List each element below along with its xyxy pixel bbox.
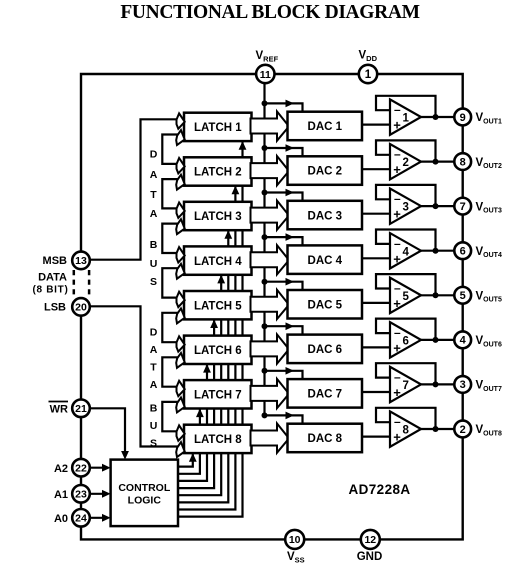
svg-text:7: 7 xyxy=(460,201,466,213)
arrowhead VREF feed DAC 8 xyxy=(286,412,295,420)
junction dot VREF rail row 2 xyxy=(262,145,268,151)
block CONTROL LOGIC U-control xyxy=(111,460,178,526)
wire feedback loop op-amp 7 xyxy=(376,363,436,384)
wire VREF feed to DAC 7 xyxy=(265,371,303,379)
svg-text:+: + xyxy=(393,340,401,355)
dac DAC 7 xyxy=(288,379,363,408)
wire WR pin 21 to CONTROL LOGIC xyxy=(81,408,125,452)
svg-text:–: – xyxy=(394,370,401,384)
arrowhead VREF feed DAC 4 xyxy=(286,233,295,241)
svg-text:4: 4 xyxy=(403,246,410,258)
wire DAC 4 output to op-amp 4 non-inverting input xyxy=(362,257,390,259)
wire op-amp 2 output to pin xyxy=(419,161,463,163)
wire data bus bracket LATCH 6 to LATCH 7 xyxy=(162,357,178,386)
bus arrow into LATCH 2 top xyxy=(177,158,185,173)
pin 8 VOUT2 xyxy=(454,153,471,170)
svg-text:A1: A1 xyxy=(54,489,68,501)
wire data bus bracket LATCH 4 to LATCH 5 xyxy=(162,268,178,297)
op-amp 8 xyxy=(390,411,421,446)
svg-text:LATCH 5: LATCH 5 xyxy=(194,300,242,312)
wire control line from CONTROL LOGIC to LATCH 3 xyxy=(178,231,228,502)
svg-text:+: + xyxy=(393,296,401,311)
svg-text:VOUT5: VOUT5 xyxy=(476,291,502,304)
svg-text:D: D xyxy=(150,327,158,339)
svg-text:3: 3 xyxy=(403,202,409,214)
junction dot op-amp 7 output xyxy=(433,381,439,387)
arrowhead VREF feed DAC 5 xyxy=(286,278,295,286)
latch LATCH 6 xyxy=(184,336,252,364)
wire VREF feed to DAC 6 xyxy=(265,326,303,334)
bus arrow into LATCH 4 bottom xyxy=(175,263,186,280)
svg-text:10: 10 xyxy=(289,534,301,546)
wire feedback loop op-amp 6 xyxy=(376,319,436,340)
wire DAC 2 output to op-amp 2 non-inverting input xyxy=(362,168,390,170)
svg-text:DAC 6: DAC 6 xyxy=(308,344,343,356)
wide bus arrow LATCH 1 to DAC 1 xyxy=(251,112,290,141)
wire feedback loop op-amp 5 xyxy=(376,274,436,295)
svg-text:VREF: VREF xyxy=(256,50,279,63)
svg-text:7: 7 xyxy=(403,380,409,392)
svg-text:VDD: VDD xyxy=(359,50,378,63)
wide bus arrow LATCH 8 to DAC 8 xyxy=(251,424,290,453)
svg-text:–: – xyxy=(394,325,401,339)
arrowhead control into LATCH 8 xyxy=(189,453,197,462)
wire DAC 6 output to op-amp 6 non-inverting input xyxy=(362,346,390,348)
latch LATCH 8 xyxy=(184,425,252,453)
arrowhead control into LATCH 6 xyxy=(203,364,211,373)
dac DAC 2 xyxy=(288,156,363,185)
wide bus arrow LATCH 7 to DAC 7 xyxy=(251,379,290,408)
pin 10 VSS xyxy=(285,530,304,549)
wire control line from CONTROL LOGIC to LATCH 5 xyxy=(178,320,214,488)
svg-text:20: 20 xyxy=(75,302,87,314)
junction dot VREF rail row 8 xyxy=(262,412,268,418)
svg-text:VOUT2: VOUT2 xyxy=(476,157,502,170)
pin 13 xyxy=(72,252,90,270)
arrowhead control into LATCH 5 xyxy=(210,319,218,328)
svg-text:AD7228A: AD7228A xyxy=(348,482,410,497)
pin 3 VOUT7 xyxy=(454,376,471,393)
wire data bus bracket LATCH 2 to LATCH 3 xyxy=(162,179,178,208)
wide bus arrow LATCH 2 to DAC 2 xyxy=(251,156,290,185)
svg-text:LATCH 3: LATCH 3 xyxy=(194,211,242,223)
svg-text:–: – xyxy=(394,236,401,250)
wire data bus bracket LATCH 5 to LATCH 6 xyxy=(162,313,178,342)
svg-text:B: B xyxy=(150,403,158,415)
svg-text:VOUT8: VOUT8 xyxy=(476,424,502,437)
svg-text:13: 13 xyxy=(75,255,87,267)
svg-text:–: – xyxy=(394,192,401,206)
wire op-amp 5 output to pin xyxy=(419,294,463,296)
latch LATCH 1 xyxy=(184,113,252,141)
bus arrow into LATCH 8 bottom xyxy=(175,442,186,459)
svg-text:B: B xyxy=(150,239,158,251)
op-amp 7 xyxy=(390,367,421,402)
pin 9 VOUT1 xyxy=(454,109,471,126)
wire DAC 1 output to op-amp 1 non-inverting input xyxy=(362,123,390,125)
junction dot op-amp 6 output xyxy=(433,337,439,343)
wire op-amp 1 output to pin xyxy=(419,116,463,118)
wire data bus bracket LATCH 1 to LATCH 2 xyxy=(162,135,178,164)
op-amp 5 xyxy=(390,278,421,313)
pin 5 VOUT5 xyxy=(454,287,471,304)
svg-text:3: 3 xyxy=(460,379,466,391)
pin 21 xyxy=(72,400,90,418)
wide bus arrow LATCH 3 to DAC 3 xyxy=(251,201,290,230)
wire VREF feed to DAC 8 xyxy=(265,415,303,423)
bus arrow into LATCH 4 top xyxy=(177,247,185,262)
svg-text:LATCH 7: LATCH 7 xyxy=(194,390,242,402)
pin 7 VOUT3 xyxy=(454,198,471,215)
dac DAC 1 xyxy=(288,112,363,141)
bus arrow into LATCH 6 bottom xyxy=(175,352,186,369)
svg-text:4: 4 xyxy=(460,335,467,347)
svg-text:DAC 8: DAC 8 xyxy=(308,433,343,445)
svg-text:5: 5 xyxy=(403,291,410,303)
wire feedback loop op-amp 2 xyxy=(376,140,436,161)
bus arrow into LATCH 1 top xyxy=(177,113,185,128)
svg-text:+: + xyxy=(393,251,401,266)
junction dot op-amp 4 output xyxy=(433,248,439,254)
svg-text:VSS: VSS xyxy=(287,551,305,564)
wire MSB pin 13 to data bus rail and LATCH 1 input xyxy=(81,119,178,259)
svg-text:LATCH 4: LATCH 4 xyxy=(194,256,242,268)
svg-text:WR: WR xyxy=(50,404,68,416)
wire op-amp 8 output to pin xyxy=(419,428,463,430)
wire feedback loop op-amp 3 xyxy=(376,185,436,206)
junction dot op-amp 8 output xyxy=(433,426,439,432)
wire feedback loop op-amp 1 xyxy=(376,96,436,117)
wire DAC 3 output to op-amp 3 non-inverting input xyxy=(362,213,390,215)
svg-text:+: + xyxy=(393,162,401,177)
svg-text:LSB: LSB xyxy=(44,302,66,314)
pin 4 VOUT6 xyxy=(454,331,471,348)
svg-text:–: – xyxy=(394,147,401,161)
wire LSB pin 20 to data bus rail and LATCH 8 input xyxy=(81,306,178,446)
arrowhead control into LATCH 4 xyxy=(217,275,225,284)
svg-text:GND: GND xyxy=(357,551,383,563)
wire control line from CONTROL LOGIC to LATCH 7 xyxy=(178,410,200,474)
pin 20 xyxy=(72,298,90,316)
wire VREF feed to DAC 5 xyxy=(265,282,303,290)
svg-text:VOUT3: VOUT3 xyxy=(476,201,502,214)
bus arrow into LATCH 8 top xyxy=(177,425,185,440)
arrowhead WR into CONTROL LOGIC xyxy=(121,451,129,460)
svg-text:LATCH 2: LATCH 2 xyxy=(194,167,242,179)
bus arrow into LATCH 5 bottom xyxy=(175,308,186,325)
wire control line from CONTROL LOGIC to LATCH 2 xyxy=(178,187,235,510)
bus arrow into LATCH 7 bottom xyxy=(175,397,186,414)
svg-text:1: 1 xyxy=(403,113,410,125)
svg-text:+: + xyxy=(393,385,401,400)
wire DAC 5 output to op-amp 5 non-inverting input xyxy=(362,302,390,304)
svg-text:S: S xyxy=(150,276,157,288)
svg-text:A: A xyxy=(150,344,158,356)
wire VREF feed to DAC 3 xyxy=(265,193,303,201)
arrowhead control into LATCH 7 xyxy=(196,409,204,418)
svg-text:–: – xyxy=(394,281,401,295)
wide bus arrow LATCH 5 to DAC 5 xyxy=(251,290,290,319)
svg-text:LATCH 1: LATCH 1 xyxy=(194,122,242,134)
svg-text:1: 1 xyxy=(365,69,372,81)
wire op-amp 4 output to pin xyxy=(419,250,463,252)
wire A1 pin to CONTROL LOGIC xyxy=(81,493,104,495)
svg-text:A: A xyxy=(150,169,158,181)
svg-text:–: – xyxy=(394,103,401,117)
latch LATCH 4 xyxy=(184,246,252,274)
svg-text:U: U xyxy=(150,420,158,432)
bus arrow into LATCH 3 bottom xyxy=(175,219,186,236)
svg-text:+: + xyxy=(393,430,401,445)
svg-text:DAC 5: DAC 5 xyxy=(308,299,343,311)
latch LATCH 2 xyxy=(184,157,252,185)
op-amp 4 xyxy=(390,233,421,268)
svg-text:MSB: MSB xyxy=(43,255,68,267)
wire op-amp 7 output to pin xyxy=(419,383,463,385)
svg-text:T: T xyxy=(150,189,157,201)
wide bus arrow LATCH 6 to DAC 6 xyxy=(251,334,290,363)
wire A2 pin to CONTROL LOGIC xyxy=(81,467,104,469)
pin 2 VOUT8 xyxy=(454,421,471,438)
bus arrow into LATCH 3 top xyxy=(177,203,185,218)
pin 12 GND xyxy=(361,530,380,549)
svg-text:DAC 4: DAC 4 xyxy=(308,255,343,267)
svg-text:2: 2 xyxy=(460,424,466,436)
svg-text:8: 8 xyxy=(460,156,466,168)
svg-text:U: U xyxy=(150,258,158,270)
svg-text:LATCH 8: LATCH 8 xyxy=(194,434,242,446)
svg-text:DATA: DATA xyxy=(38,272,67,284)
svg-text:CONTROL: CONTROL xyxy=(118,482,170,494)
bus arrow into LATCH 1 bottom xyxy=(175,130,186,147)
svg-text:6: 6 xyxy=(460,246,466,258)
wire feedback loop op-amp 8 xyxy=(376,408,436,429)
svg-text:DAC 1: DAC 1 xyxy=(308,121,343,133)
arrowhead VREF feed DAC 7 xyxy=(286,367,295,375)
wire data bus bracket LATCH 3 to LATCH 4 xyxy=(162,224,178,253)
op-amp 1 xyxy=(390,99,421,134)
svg-text:A0: A0 xyxy=(54,513,68,525)
junction dot VREF rail row 6 xyxy=(262,323,268,329)
arrowhead A1 into CONTROL LOGIC xyxy=(102,490,111,498)
svg-text:8: 8 xyxy=(403,425,410,437)
arrowhead control into LATCH 1 xyxy=(239,141,247,150)
arrowhead VREF feed DAC 1 xyxy=(286,100,295,108)
svg-text:T: T xyxy=(150,362,157,374)
arrowhead control into LATCH 2 xyxy=(232,186,240,195)
svg-text:A2: A2 xyxy=(54,463,68,475)
wide bus arrow LATCH 4 to DAC 4 xyxy=(251,245,290,274)
svg-text:VOUT7: VOUT7 xyxy=(476,380,502,393)
svg-text:23: 23 xyxy=(75,489,87,501)
svg-text:VOUT1: VOUT1 xyxy=(476,112,502,125)
junction dot VREF rail row 5 xyxy=(262,279,268,285)
junction dot VREF rail row 1 xyxy=(262,100,268,106)
svg-text:6: 6 xyxy=(403,335,409,347)
wire VREF feed to DAC 1 xyxy=(265,103,303,111)
svg-text:2: 2 xyxy=(403,157,409,169)
junction dot op-amp 2 output xyxy=(433,159,439,165)
pin 22 xyxy=(72,459,90,477)
op-amp 3 xyxy=(390,189,421,224)
wire control line from CONTROL LOGIC to LATCH 4 xyxy=(178,276,221,495)
svg-text:12: 12 xyxy=(364,534,376,546)
arrowhead VREF feed DAC 2 xyxy=(286,144,295,152)
arrowhead A2 into CONTROL LOGIC xyxy=(102,464,111,472)
svg-text:5: 5 xyxy=(460,290,466,302)
pin 11 VREF xyxy=(256,65,274,83)
svg-text:DAC 3: DAC 3 xyxy=(308,210,343,222)
op-amp 2 xyxy=(390,144,421,179)
pin 23 xyxy=(72,485,90,503)
wire VREF feed to DAC 4 xyxy=(265,237,303,245)
wire control line from CONTROL LOGIC to LATCH 8 xyxy=(178,454,193,467)
wire control line from CONTROL LOGIC to LATCH 1 xyxy=(178,142,243,516)
svg-text:LOGIC: LOGIC xyxy=(128,495,162,507)
dac DAC 3 xyxy=(288,201,363,230)
pin 1 VDD xyxy=(359,65,377,83)
junction dot op-amp 3 output xyxy=(433,203,439,209)
pin 6 VOUT4 xyxy=(454,242,471,259)
wire DAC 7 output to op-amp 7 non-inverting input xyxy=(362,391,390,393)
op-amp 6 xyxy=(390,322,421,357)
svg-text:LATCH 6: LATCH 6 xyxy=(194,345,242,357)
dac DAC 6 xyxy=(288,335,363,364)
latch LATCH 5 xyxy=(184,291,252,319)
junction dot VREF rail row 3 xyxy=(262,190,268,196)
arrowhead VREF feed DAC 3 xyxy=(286,189,295,197)
arrowhead control into LATCH 3 xyxy=(224,230,232,239)
dac DAC 4 xyxy=(288,245,363,274)
svg-text:21: 21 xyxy=(75,403,87,415)
svg-text:22: 22 xyxy=(75,463,87,475)
wire VREF feed to DAC 2 xyxy=(265,148,303,156)
wire feedback loop op-amp 4 xyxy=(376,230,436,251)
bus arrow into LATCH 2 bottom xyxy=(175,174,186,191)
dac DAC 5 xyxy=(288,290,363,319)
arrowhead VREF feed DAC 6 xyxy=(286,322,295,330)
junction dot op-amp 1 output xyxy=(433,114,439,120)
junction dot VREF rail row 4 xyxy=(262,234,268,240)
dashed bus pins 13 to 20 xyxy=(73,270,76,298)
wire control line from CONTROL LOGIC to LATCH 6 xyxy=(178,365,207,481)
latch LATCH 3 xyxy=(184,202,252,230)
junction dot op-amp 5 output xyxy=(433,292,439,298)
latch LATCH 7 xyxy=(184,380,252,408)
dac DAC 8 xyxy=(288,424,363,453)
svg-text:A: A xyxy=(150,379,158,391)
svg-text:11: 11 xyxy=(260,69,271,81)
svg-text:FUNCTIONAL BLOCK DIAGRAM: FUNCTIONAL BLOCK DIAGRAM xyxy=(120,2,419,23)
bus arrow into LATCH 6 top xyxy=(177,336,185,351)
wire A0 pin to CONTROL LOGIC xyxy=(81,517,104,519)
bus arrow into LATCH 5 top xyxy=(177,292,185,307)
wire op-amp 3 output to pin xyxy=(419,205,463,207)
wire DAC 8 output to op-amp 8 non-inverting input xyxy=(362,436,390,438)
svg-text:A: A xyxy=(150,208,158,220)
svg-text:+: + xyxy=(393,118,401,133)
svg-text:S: S xyxy=(150,438,157,450)
svg-text:24: 24 xyxy=(75,513,87,525)
pin 24 xyxy=(72,509,90,527)
wire data bus bracket LATCH 7 to LATCH 8 xyxy=(162,402,178,431)
svg-text:VOUT4: VOUT4 xyxy=(476,246,502,259)
junction dot VREF rail row 7 xyxy=(262,368,268,374)
svg-text:+: + xyxy=(393,207,401,222)
chip boundary AD7228A package outline xyxy=(81,74,463,539)
svg-text:DAC 2: DAC 2 xyxy=(308,166,343,178)
bus arrow into LATCH 7 top xyxy=(177,381,185,396)
svg-text:VOUT6: VOUT6 xyxy=(476,335,502,348)
wire op-amp 6 output to pin xyxy=(419,339,463,341)
arrowhead A0 into CONTROL LOGIC xyxy=(102,514,111,522)
wire VREF rail from pin 11 down the DAC column xyxy=(263,80,265,415)
svg-text:–: – xyxy=(394,415,401,429)
svg-text:DAC 7: DAC 7 xyxy=(308,389,343,401)
svg-text:(8 BIT): (8 BIT) xyxy=(32,285,68,296)
svg-text:9: 9 xyxy=(460,112,466,124)
svg-text:D: D xyxy=(150,149,158,161)
